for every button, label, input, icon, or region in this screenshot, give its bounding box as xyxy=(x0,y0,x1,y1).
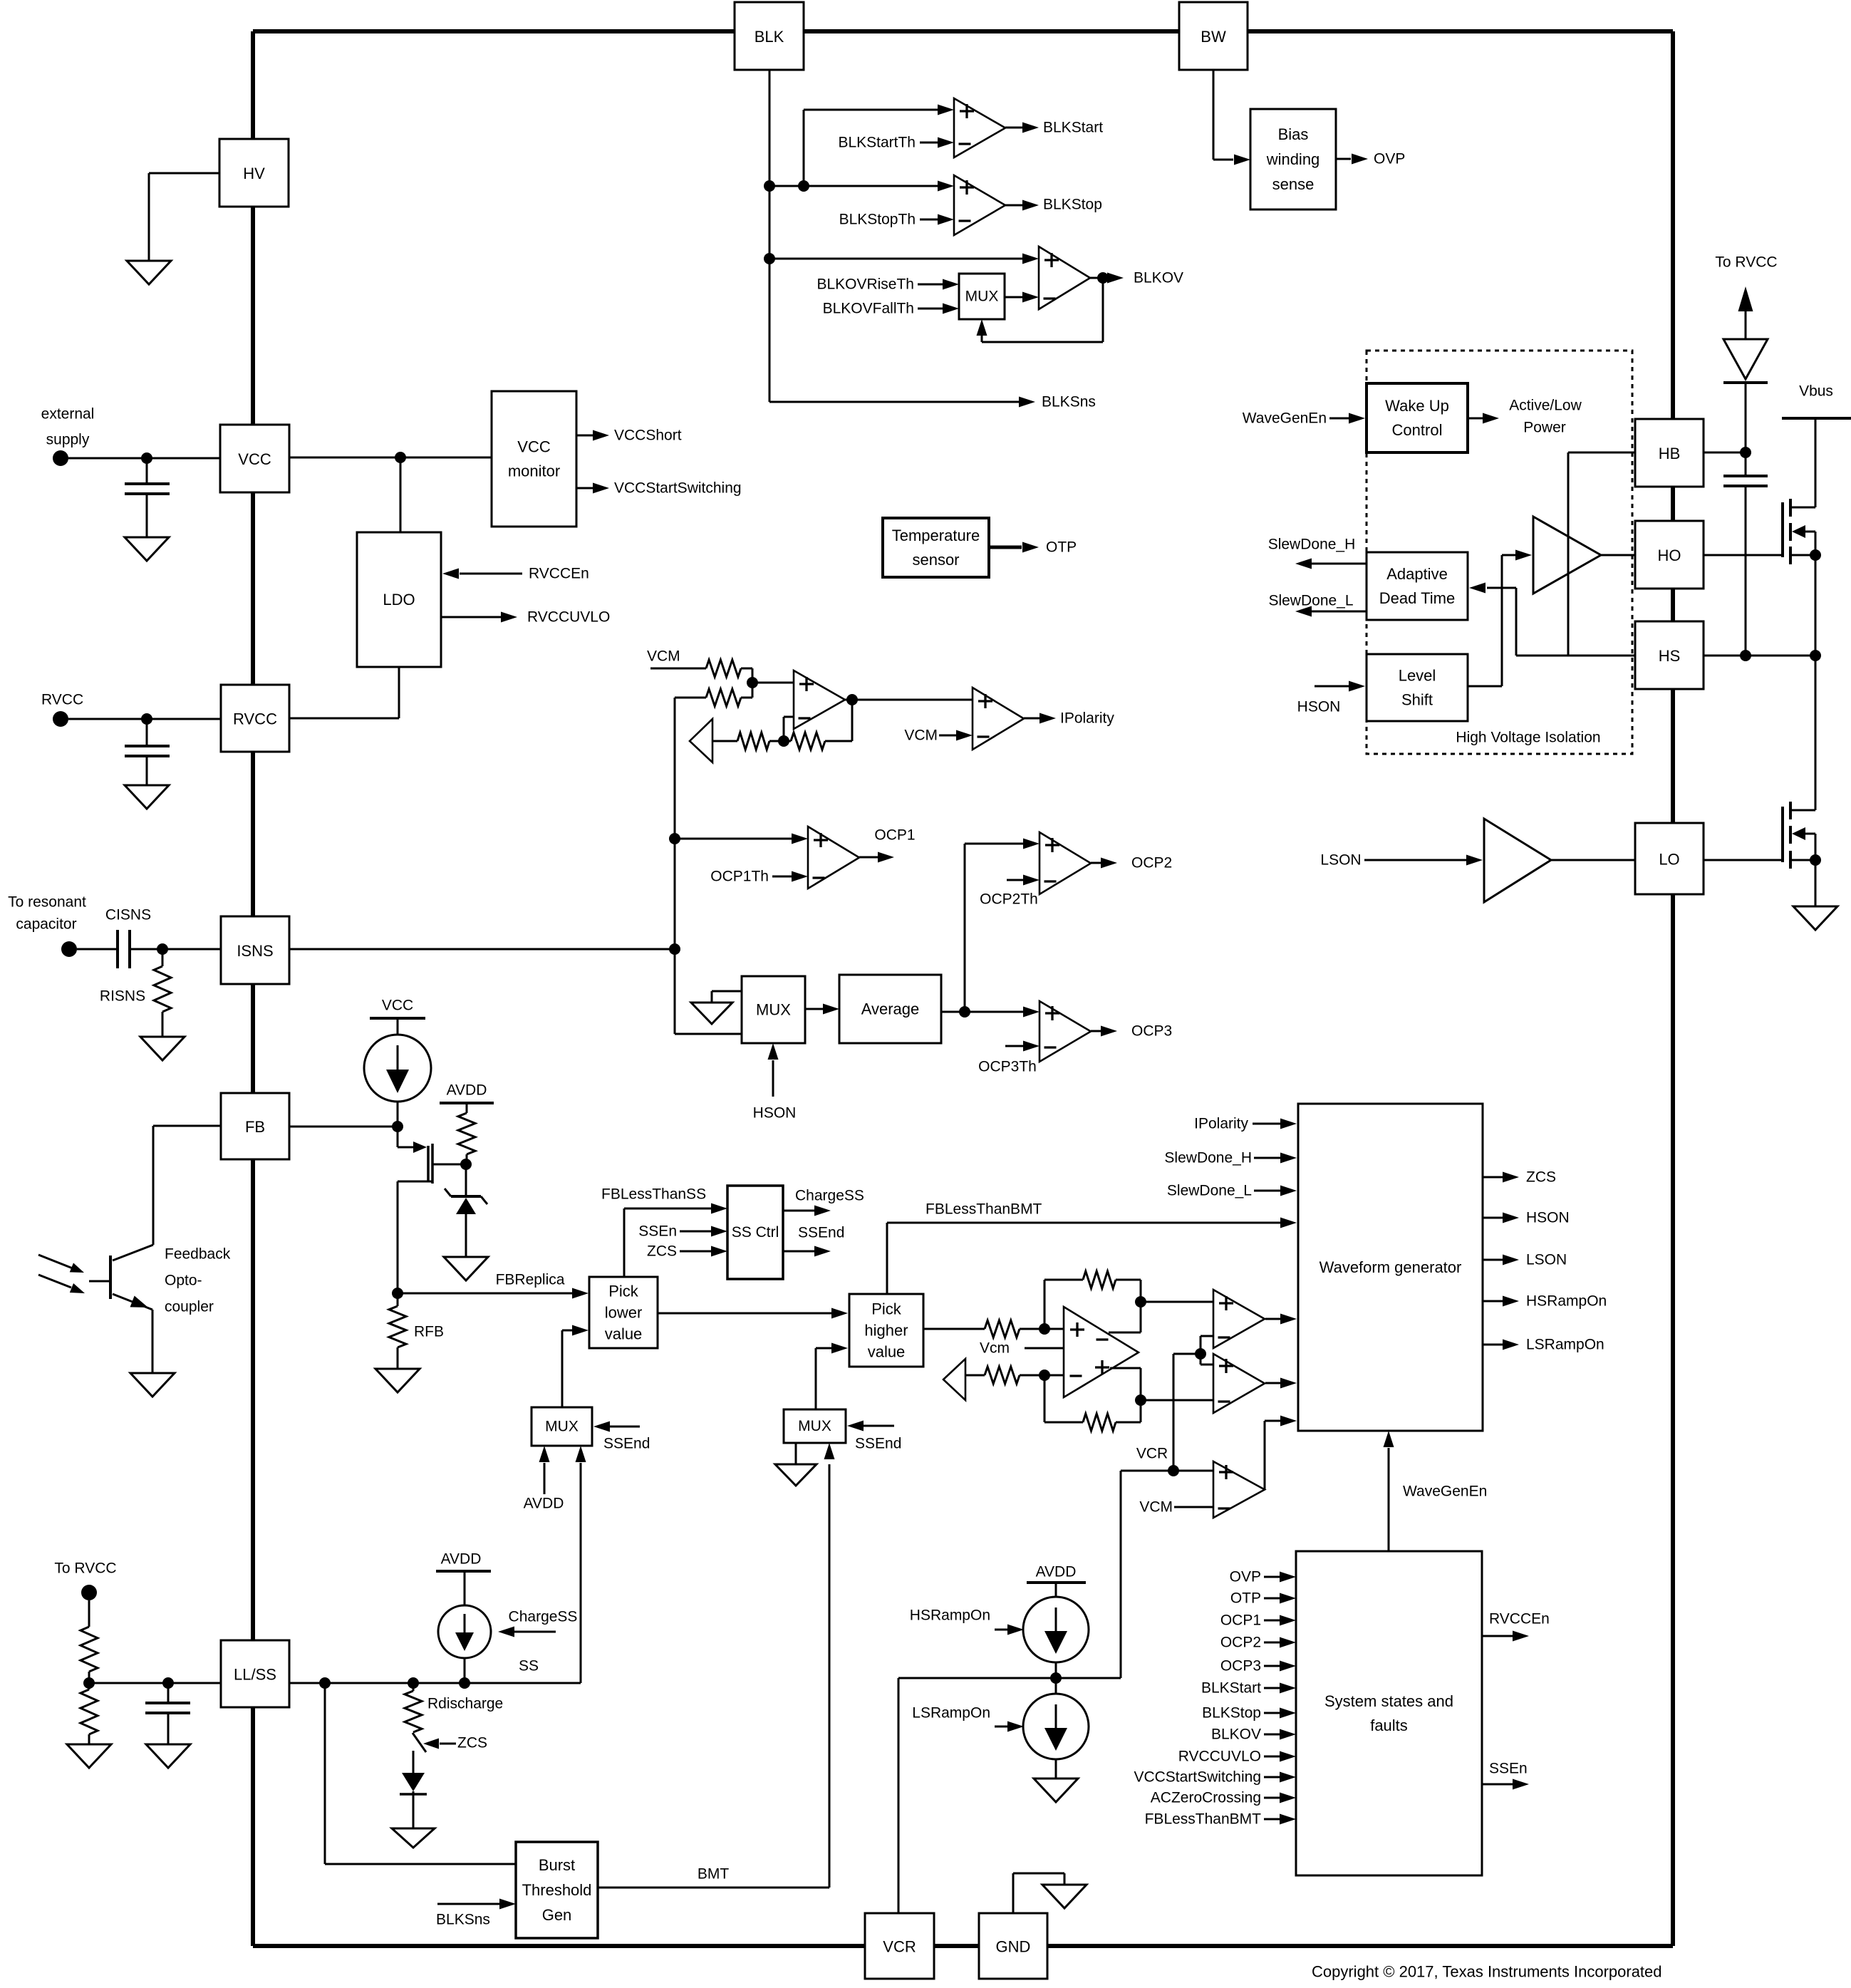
wire VCR comp out xyxy=(1264,1421,1266,1489)
pin LO xyxy=(1635,823,1704,894)
pin HV xyxy=(219,139,289,207)
mux MUX1 xyxy=(532,1407,592,1446)
svg-text:ZCS: ZCS xyxy=(647,1243,677,1260)
wire fb bot xyxy=(1044,1375,1046,1422)
rail AVDD fb xyxy=(440,1102,494,1104)
ground GND pin xyxy=(1042,1885,1087,1908)
signal ActiveLowPower xyxy=(1468,418,1483,420)
svg-text:FB: FB xyxy=(245,1118,265,1136)
wire AVDD mux1 xyxy=(544,1463,546,1494)
svg-text:winding: winding xyxy=(1266,150,1320,168)
node follower drain xyxy=(460,1159,472,1170)
wire FBReplica xyxy=(398,1293,572,1295)
wire ISNS xyxy=(289,948,675,951)
node U1 out xyxy=(846,694,858,705)
svg-text:HSON: HSON xyxy=(1526,1210,1570,1226)
wire BLKStopTh xyxy=(920,219,938,221)
block VCC monitor xyxy=(492,391,576,527)
wire U1 fb down xyxy=(851,700,854,741)
signal LSON out xyxy=(1483,1259,1503,1261)
svg-text:VCM: VCM xyxy=(647,648,680,665)
ground RISNS xyxy=(140,1037,185,1060)
svg-text:OCP1: OCP1 xyxy=(1220,1612,1261,1629)
svg-text:Adaptive: Adaptive xyxy=(1386,565,1448,583)
signal RVCCEn xyxy=(460,573,522,575)
wire OCP1Th xyxy=(772,876,792,878)
wire pad-cap xyxy=(77,948,118,951)
node RVCC cap xyxy=(141,713,152,725)
svg-text:IPolarity: IPolarity xyxy=(1194,1116,1248,1132)
signal SlewDone_H adt xyxy=(1311,563,1367,565)
wire div mid xyxy=(88,1672,90,1689)
svg-text:HO: HO xyxy=(1658,547,1681,564)
resistor FDA fb top xyxy=(1083,1271,1116,1288)
wire OCP3+ xyxy=(965,1011,1024,1013)
wire FDA out bot xyxy=(1110,1367,1141,1370)
svg-text:Feedback: Feedback xyxy=(165,1246,231,1263)
node Average out xyxy=(959,1006,970,1018)
wire BLK net xyxy=(769,70,771,402)
pin HB xyxy=(1635,419,1704,487)
signal SSEnd mux2 xyxy=(861,1425,894,1427)
opto base stub xyxy=(89,1280,110,1283)
wire driver-HO xyxy=(1601,554,1635,556)
svg-text:Copyright © 2017, Texas Instru: Copyright © 2017, Texas Instruments Inco… xyxy=(1312,1963,1662,1981)
pad RVCC xyxy=(53,711,68,727)
mux ISNS xyxy=(742,976,805,1043)
diode D2 xyxy=(402,1773,425,1791)
svg-text:sensor: sensor xyxy=(912,551,959,569)
ground LSRampOn xyxy=(1034,1779,1078,1802)
svg-text:HS: HS xyxy=(1659,647,1681,665)
svg-text:BLKSns: BLKSns xyxy=(1042,394,1096,410)
wire LO-gate xyxy=(1704,859,1783,861)
wire div gnd xyxy=(88,1734,90,1744)
signal OCP1 xyxy=(859,856,878,859)
block System states and faults xyxy=(1296,1551,1482,1875)
ground MUX2 xyxy=(795,1443,797,1464)
pin HS xyxy=(1635,621,1704,689)
wire compB- xyxy=(1141,1399,1213,1402)
resistor RFB xyxy=(389,1306,406,1347)
wire compA+ xyxy=(1141,1301,1213,1303)
wire VCM xyxy=(650,668,706,670)
svg-text:value: value xyxy=(605,1325,643,1343)
block Level Shift xyxy=(1367,654,1468,721)
block SS Ctrl xyxy=(727,1186,783,1279)
comparator BLKOV xyxy=(1022,254,1039,264)
block LDO xyxy=(357,532,441,667)
comparator OCP3 xyxy=(1023,1007,1039,1018)
svg-text:VCCStartSwitching: VCCStartSwitching xyxy=(1134,1769,1261,1786)
wire HB-boot xyxy=(1704,452,1746,454)
capacitor LLSS xyxy=(167,1683,170,1703)
wire RVCC xyxy=(68,718,221,720)
comparator WG-B xyxy=(1213,1354,1265,1413)
svg-text:RISNS: RISNS xyxy=(100,988,145,1005)
wire opto emitter xyxy=(152,1310,154,1373)
wire VCR pin xyxy=(898,1678,900,1913)
wire VCC-monitor xyxy=(289,457,492,459)
svg-text:SlewDone_H: SlewDone_H xyxy=(1268,537,1356,553)
wire BLKOVRiseTh xyxy=(918,284,943,286)
wire OCP3Th xyxy=(1005,1045,1024,1047)
block Waveform generator xyxy=(1298,1104,1483,1431)
mux MUX2 xyxy=(784,1409,846,1443)
signal LSRampOn out xyxy=(1483,1344,1503,1346)
svg-text:SSEn: SSEn xyxy=(638,1223,677,1240)
buffer Vcm2 xyxy=(943,1359,965,1400)
driver LS xyxy=(1484,819,1551,902)
svg-text:Dead Time: Dead Time xyxy=(1379,589,1455,607)
ground zener xyxy=(444,1257,488,1280)
svg-text:OVP: OVP xyxy=(1230,1569,1261,1585)
signal RVCCEn out xyxy=(1482,1635,1513,1637)
svg-text:BLKStopTh: BLKStopTh xyxy=(839,212,916,228)
zener D1 xyxy=(451,1195,481,1198)
svg-text:Average: Average xyxy=(861,1000,920,1018)
node FDA in+ xyxy=(1039,1323,1050,1335)
svg-text:WaveGenEn: WaveGenEn xyxy=(1403,1484,1487,1500)
svg-text:BMT: BMT xyxy=(698,1866,730,1883)
wire OCP2+ xyxy=(965,843,1024,845)
comparator BLKStart xyxy=(938,105,954,115)
svg-text:LL/SS: LL/SS xyxy=(234,1666,276,1684)
wire LSON xyxy=(1364,859,1466,861)
ground diode xyxy=(392,1828,435,1848)
node VCR split xyxy=(1195,1348,1206,1360)
node SS a xyxy=(319,1677,331,1689)
wire HS-Q2 xyxy=(1704,655,1815,657)
wire VCM vcr xyxy=(1174,1506,1213,1508)
svg-text:VCR: VCR xyxy=(883,1938,916,1956)
current source ChargeSS xyxy=(438,1605,491,1658)
wire MUX-BLKOV xyxy=(1005,296,1023,299)
signal compB out xyxy=(1265,1382,1280,1384)
svg-text:OCP2: OCP2 xyxy=(1220,1635,1261,1651)
svg-text:BW: BW xyxy=(1201,28,1226,46)
wire follower source xyxy=(398,1181,432,1183)
signal ChargeSS out xyxy=(783,1210,815,1212)
driver HS xyxy=(1533,517,1601,594)
svg-text:RFB: RFB xyxy=(414,1324,444,1340)
current source VCC xyxy=(364,1035,431,1102)
transistor FB follower xyxy=(427,1146,430,1181)
resistor VCM bottom xyxy=(706,689,741,706)
svg-text:VCCShort: VCCShort xyxy=(614,428,682,444)
resistor divider2 xyxy=(81,1689,98,1734)
wire fb top xyxy=(1044,1280,1046,1329)
wire sw-diode xyxy=(413,1751,415,1773)
svg-text:lower: lower xyxy=(605,1304,643,1322)
resistor RISNS xyxy=(154,966,171,1012)
pin BLK xyxy=(735,2,804,70)
svg-text:Shift: Shift xyxy=(1401,691,1433,709)
wire MUX1 out xyxy=(561,1330,564,1407)
signal HSON out xyxy=(1483,1217,1503,1219)
svg-text:Gen: Gen xyxy=(542,1906,572,1924)
svg-text:OCP1: OCP1 xyxy=(874,827,915,844)
comparator VCR xyxy=(1213,1461,1265,1518)
svg-text:RVCC: RVCC xyxy=(41,692,83,708)
wire Q2 gnd xyxy=(1815,860,1817,906)
svg-text:BLKStartTh: BLKStartTh xyxy=(838,135,916,151)
wire FB gate xyxy=(397,1127,399,1147)
wire diode gnd xyxy=(413,1791,415,1828)
rail VCC src xyxy=(370,1017,425,1020)
resistor FDA fb bot xyxy=(1083,1414,1116,1431)
wire VCR comp+ xyxy=(1173,1470,1213,1472)
wire fb top r xyxy=(1116,1279,1141,1281)
wire driver-LO xyxy=(1551,859,1635,861)
node ext cap xyxy=(141,452,152,464)
svg-text:external: external xyxy=(41,406,95,423)
comparator BLKStop xyxy=(938,181,954,192)
svg-text:SSEnd: SSEnd xyxy=(855,1436,901,1452)
wire boot arrow xyxy=(1745,311,1747,339)
svg-text:MUX: MUX xyxy=(798,1418,831,1434)
svg-text:Waveform generator: Waveform generator xyxy=(1319,1258,1462,1276)
wire VCC src xyxy=(397,1018,399,1035)
comparator WG-A xyxy=(1213,1290,1265,1348)
svg-text:HSON: HSON xyxy=(1297,699,1341,715)
pad ISNS xyxy=(61,941,77,957)
svg-text:BLKStart: BLKStart xyxy=(1201,1680,1261,1697)
svg-text:LSRampOn: LSRampOn xyxy=(1526,1337,1604,1353)
wire RISNS gnd xyxy=(162,949,164,966)
comparator OCP1 xyxy=(792,834,808,844)
wire BLKStartTh xyxy=(920,142,938,144)
svg-text:SlewDone_L: SlewDone_L xyxy=(1167,1183,1252,1199)
ground divider xyxy=(67,1744,111,1768)
wire Vbus xyxy=(1815,418,1817,507)
wire div-LLSS xyxy=(89,1682,221,1684)
wire RFB xyxy=(397,1293,399,1306)
svg-text:ACZeroCrossing: ACZeroCrossing xyxy=(1151,1790,1261,1806)
node VCR xyxy=(1168,1465,1179,1476)
node HB boot xyxy=(1740,447,1751,458)
svg-text:VCM: VCM xyxy=(904,728,938,744)
wire rin- xyxy=(1020,1374,1064,1377)
wire divider xyxy=(88,1600,90,1627)
pad external supply xyxy=(53,450,68,466)
current source LSRampOn xyxy=(1023,1694,1089,1759)
node Q1 source xyxy=(1810,549,1821,561)
svg-text:value: value xyxy=(868,1343,906,1361)
wire src-FB xyxy=(397,1102,399,1127)
svg-text:Vcm: Vcm xyxy=(980,1340,1010,1357)
resistor FDA in- xyxy=(985,1367,1020,1384)
block Wake Up Control xyxy=(1367,383,1468,452)
wire LS-driver xyxy=(1468,685,1502,688)
svg-text:OVP: OVP xyxy=(1374,151,1405,167)
svg-text:To RVCC: To RVCC xyxy=(54,1560,116,1577)
ground VCC cap xyxy=(125,537,169,561)
wire r-top corner xyxy=(741,668,752,670)
block Average xyxy=(839,975,941,1043)
rail AVDD ramp xyxy=(1027,1581,1086,1584)
svg-text:FBLessThanBMT: FBLessThanBMT xyxy=(925,1201,1042,1218)
node divider xyxy=(83,1677,95,1689)
wire rfb-zener xyxy=(466,1154,468,1164)
block Pick higher value xyxy=(849,1294,923,1367)
svg-text:VCC: VCC xyxy=(382,998,413,1014)
node HS ext xyxy=(1810,650,1821,661)
svg-text:MUX: MUX xyxy=(545,1419,579,1435)
wire OCP1+ xyxy=(675,838,792,840)
capacitor CISNS xyxy=(116,930,119,968)
rail AVDD chg xyxy=(436,1570,491,1573)
svg-text:ISNS: ISNS xyxy=(237,942,273,960)
svg-text:System states and: System states and xyxy=(1324,1692,1453,1710)
svg-text:VCM: VCM xyxy=(1139,1499,1173,1516)
svg-text:VCR: VCR xyxy=(1136,1446,1168,1462)
wire MUX2 out xyxy=(815,1348,817,1409)
node FBReplica xyxy=(392,1288,403,1299)
node SS c xyxy=(459,1677,470,1689)
svg-text:Burst: Burst xyxy=(539,1856,575,1874)
signal WaveGenEn up xyxy=(1388,1448,1390,1551)
svg-text:SS: SS xyxy=(519,1658,539,1674)
opto emitter xyxy=(113,1294,152,1310)
wire Vcm xyxy=(1025,1347,1064,1350)
signal SSEn out xyxy=(1482,1783,1513,1786)
svg-text:IPolarity: IPolarity xyxy=(1060,710,1114,727)
signal BLKSns in xyxy=(437,1903,500,1905)
wire BLKStop+ xyxy=(804,185,938,187)
pin GND xyxy=(979,1913,1047,1979)
node ISNS xyxy=(669,943,680,955)
node OCP1 tap xyxy=(669,833,680,844)
svg-text:BLKSns: BLKSns xyxy=(436,1912,490,1928)
wire HO-gate xyxy=(1704,554,1783,556)
svg-text:SS Ctrl: SS Ctrl xyxy=(732,1224,779,1241)
wire FB left xyxy=(153,1125,221,1127)
svg-text:To resonant: To resonant xyxy=(8,894,86,911)
signal compA out xyxy=(1265,1318,1280,1320)
svg-text:AVDD: AVDD xyxy=(1036,1564,1077,1580)
svg-text:Active/Low: Active/Low xyxy=(1509,398,1582,414)
wire BMT up xyxy=(829,1464,831,1888)
svg-text:Pick: Pick xyxy=(608,1283,639,1300)
wire BLKOV+ xyxy=(769,258,1023,260)
signal OCP3 xyxy=(1091,1030,1101,1032)
node boot-HS xyxy=(1740,650,1751,661)
svg-text:BLKOV: BLKOV xyxy=(1211,1726,1261,1743)
svg-text:ZCS: ZCS xyxy=(1526,1169,1556,1186)
wire ext-VCC xyxy=(68,457,220,460)
wire rin+ xyxy=(1020,1328,1064,1330)
svg-text:High Voltage Isolation: High Voltage Isolation xyxy=(1456,730,1600,746)
wire OCP2 vert xyxy=(964,844,966,1012)
mux BLKOV xyxy=(943,279,959,290)
svg-text:BLKOVFallTh: BLKOVFallTh xyxy=(823,301,914,317)
opto collector xyxy=(113,1245,153,1260)
svg-text:RVCCEn: RVCCEn xyxy=(529,566,589,582)
resistor divider1 xyxy=(81,1627,98,1672)
wire OCP2Th xyxy=(1007,879,1024,881)
svg-text:Power: Power xyxy=(1523,420,1566,436)
svg-text:supply: supply xyxy=(46,432,90,448)
signal VCCStartSwitching xyxy=(576,487,594,490)
signal BLKOV xyxy=(1107,273,1124,284)
wire HV stem xyxy=(251,70,255,139)
wire ZCS in xyxy=(680,1251,712,1253)
signal ZCS out xyxy=(1483,1176,1503,1179)
isolation dashed box xyxy=(1367,351,1632,754)
wire SS mux1 xyxy=(580,1463,582,1683)
wire follower drain xyxy=(432,1164,466,1166)
pin LL/SS xyxy=(221,1640,289,1707)
block Pick lower value xyxy=(589,1277,658,1348)
wire VCC-LDO xyxy=(400,457,402,532)
signal VCCShort xyxy=(576,435,594,437)
comparator IPolarity xyxy=(956,730,973,741)
svg-text:higher: higher xyxy=(864,1322,908,1340)
svg-text:Control: Control xyxy=(1392,421,1443,439)
wire PickL-PickH xyxy=(658,1313,831,1315)
wire LDO-RVCC xyxy=(398,667,400,718)
svg-text:RVCCUVLO: RVCCUVLO xyxy=(527,609,610,626)
svg-text:VCCStartSwitching: VCCStartSwitching xyxy=(614,480,742,497)
signal OCP2 xyxy=(1091,862,1101,864)
svg-text:Rdischarge: Rdischarge xyxy=(427,1696,503,1712)
wire HSRampOn ctl xyxy=(995,1629,1008,1631)
rail Vbus xyxy=(1782,417,1851,420)
svg-text:RVCCEn: RVCCEn xyxy=(1489,1611,1550,1627)
pin VCC xyxy=(220,425,289,492)
wire U1 out xyxy=(845,699,973,701)
wire sum to opamp xyxy=(752,682,794,684)
svg-text:sense: sense xyxy=(1272,175,1315,193)
wire MUX-Average xyxy=(805,1008,824,1010)
op-amp FDA xyxy=(1064,1307,1139,1397)
signal BLKSns xyxy=(769,401,1020,403)
svg-text:HSRampOn: HSRampOn xyxy=(1526,1293,1607,1310)
svg-text:capacitor: capacitor xyxy=(16,916,76,933)
svg-text:MUX: MUX xyxy=(965,289,999,305)
svg-text:OCP2: OCP2 xyxy=(1131,855,1172,871)
signal BLKStop xyxy=(1005,205,1023,207)
svg-text:SSEn: SSEn xyxy=(1489,1761,1528,1777)
wire BW xyxy=(1213,70,1215,160)
ground Q2 xyxy=(1793,906,1837,930)
node FDA out top xyxy=(1135,1296,1146,1308)
svg-text:FBLessThanBMT: FBLessThanBMT xyxy=(1145,1811,1262,1828)
signal RVCCUVLO xyxy=(441,616,502,618)
wire Average out xyxy=(941,1011,965,1013)
pin HO xyxy=(1635,521,1704,589)
wire PickH out xyxy=(923,1328,985,1330)
wire boot xyxy=(1745,383,1747,476)
node fb xyxy=(778,735,789,747)
signal SSEnd mux1 xyxy=(608,1426,640,1428)
svg-text:MUX: MUX xyxy=(756,1001,791,1019)
svg-text:BLKStop: BLKStop xyxy=(1043,197,1102,213)
pin ISNS xyxy=(221,916,289,984)
pin FB xyxy=(221,1093,289,1159)
wire ChargeSS ctl xyxy=(514,1631,556,1633)
node FDA in- xyxy=(1039,1370,1050,1381)
chip border right xyxy=(1671,31,1675,419)
svg-text:Bias: Bias xyxy=(1278,125,1309,143)
node summing xyxy=(747,677,758,688)
node BLK b xyxy=(798,180,809,192)
svg-text:RVCCUVLO: RVCCUVLO xyxy=(1178,1749,1261,1765)
transistor Q1 high-side xyxy=(1781,502,1784,557)
svg-text:BLK: BLK xyxy=(755,28,784,46)
svg-text:CISNS: CISNS xyxy=(105,907,151,923)
